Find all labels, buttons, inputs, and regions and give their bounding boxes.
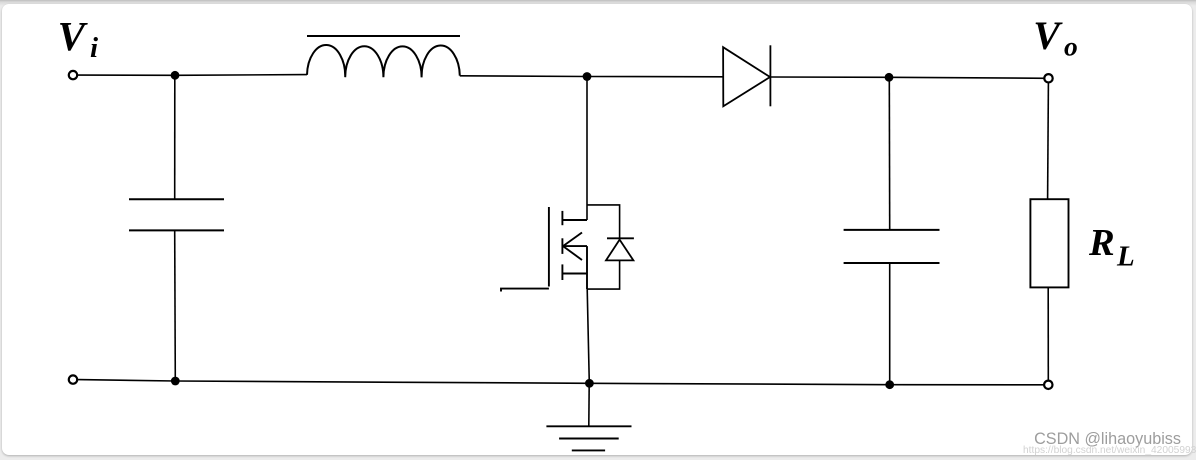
svg-text:V: V <box>58 13 89 59</box>
wire node A down to capacitor C1 <box>174 75 176 199</box>
watermark url <box>1023 445 1196 456</box>
node C junction <box>885 73 894 82</box>
transistor Q1 <box>501 207 587 292</box>
wire body diode to source <box>587 260 620 289</box>
terminal output top <box>1044 74 1052 82</box>
ground <box>546 426 631 450</box>
svg-text:i: i <box>90 32 98 64</box>
wire resistor RL to bottom terminal <box>1047 287 1049 380</box>
watermark CSDN <box>1034 430 1181 449</box>
node A junction <box>171 71 180 80</box>
diode D2 body diode <box>606 238 634 260</box>
inductor L1 <box>307 36 460 77</box>
wire diode to node C <box>770 76 889 78</box>
wire inductor to node B <box>460 75 587 78</box>
svg-text:o: o <box>1064 31 1078 62</box>
wire node C down to capacitor C2 <box>888 77 890 230</box>
capacitor C2 <box>844 230 940 263</box>
node D junction bottom left <box>171 377 180 386</box>
node B junction <box>583 72 592 81</box>
terminal input bottom <box>69 375 77 383</box>
wire output terminal down to resistor RL <box>1047 83 1050 200</box>
node Vi label <box>58 13 98 64</box>
node E junction bottom center <box>585 379 594 388</box>
svg-text:V: V <box>1033 13 1063 58</box>
wire capacitor C1 to bottom rail <box>174 230 177 381</box>
terminal input top <box>69 71 77 79</box>
wire capacitor C2 to bottom rail <box>889 263 891 385</box>
wire node E to ground <box>588 383 590 426</box>
wire bottom rail <box>78 380 1045 385</box>
wire drain tee to body diode branch <box>587 205 620 238</box>
wire node C to output terminal <box>889 77 1049 78</box>
svg-text:L: L <box>1116 240 1135 272</box>
wire input to node A <box>78 74 176 76</box>
diode D1 <box>723 45 770 106</box>
resistor RL label <box>1088 222 1135 272</box>
wire source down to bottom rail <box>587 289 589 383</box>
capacitor C1 <box>129 199 224 230</box>
svg-text:R: R <box>1088 222 1115 264</box>
wire node A to inductor <box>175 74 307 77</box>
node Vo label <box>1033 13 1077 62</box>
wire node B to diode <box>587 76 723 78</box>
terminal output bottom <box>1044 381 1052 389</box>
wire node B down to transistor drain <box>586 77 588 221</box>
node F junction bottom right <box>885 380 894 389</box>
resistor RL <box>1030 199 1068 287</box>
